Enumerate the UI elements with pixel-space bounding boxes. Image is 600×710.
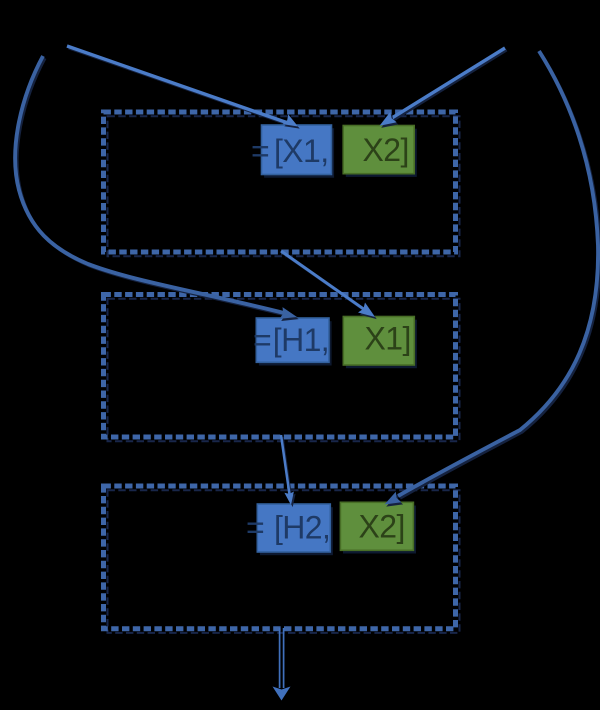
green box X2] layer1 shadow xyxy=(346,129,417,177)
blue box [H1, layer2 shadow xyxy=(259,321,332,365)
layer3 dashed box xyxy=(104,486,456,629)
blue box [H1, layer2 xyxy=(256,318,329,362)
blue box [X1, layer1 xyxy=(262,125,332,175)
layer1 dashed box xyxy=(104,112,456,252)
blue box [X1, layer1 shadow xyxy=(264,128,334,178)
green box X2] layer3 shadow xyxy=(343,506,416,554)
arrow X1 input to layer1 blue box xyxy=(69,48,291,125)
svg-text:=: = xyxy=(251,133,269,169)
layer3 dashed box shadow xyxy=(108,490,460,633)
svg-text:X1]: X1] xyxy=(365,320,411,356)
curved arrow X2 skip connection down right side to layer3 green box xyxy=(400,53,600,498)
svg-text:X2]: X2] xyxy=(359,508,405,544)
arrow X2 input to layer1 green box xyxy=(390,50,506,122)
layer2 dashed box shadow xyxy=(108,299,460,442)
green box X1] layer2 xyxy=(343,317,414,366)
layer2 dashed box xyxy=(104,295,456,438)
curved arrow X1 skip connection down left side to layer2 blue box xyxy=(17,58,286,315)
green box X2] layer3 xyxy=(340,502,413,550)
blue box [H2, layer3 xyxy=(257,504,330,552)
svg-text:[H1,: [H1, xyxy=(273,322,329,358)
arrow layer2 output to layer3 blue box [H2, xyxy=(283,437,292,499)
svg-text:X2]: X2] xyxy=(363,132,409,168)
svg-text:=: = xyxy=(246,510,264,546)
arrow layer1 output H1 to layer2 green box X1] xyxy=(283,253,368,313)
output arrow from layer3 bottom xyxy=(279,628,281,688)
svg-text:=: = xyxy=(253,322,271,358)
blue box [H2, layer3 shadow xyxy=(260,507,333,555)
svg-text:[X1,: [X1, xyxy=(274,133,329,169)
layer1 dashed box shadow xyxy=(108,116,460,256)
green box X1] layer2 shadow xyxy=(346,320,417,369)
green box X2] layer1 xyxy=(343,126,414,174)
svg-text:[H2,: [H2, xyxy=(274,510,330,546)
